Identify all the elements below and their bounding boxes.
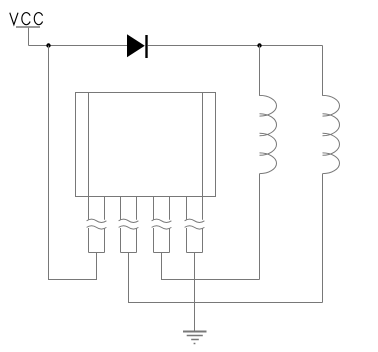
wire pin 2 to inductor L2 bottom [129,253,323,303]
pin 2 lead [121,197,137,253]
wire VCC left rail down to pin 1 [49,46,97,280]
wire pin 4 to ground [194,253,196,332]
inductor L2 [323,46,340,303]
pin 1 break symbol [87,219,107,229]
wire VCC to diode anode [29,45,128,47]
pin 1 lead [89,197,105,253]
power symbol VCC [10,13,43,46]
inductor L1 [260,46,277,280]
node B junction dot [257,43,261,47]
IC package U1 body [76,93,216,197]
pin 4 lead [187,197,203,253]
wire pin 3 to inductor L1 bottom [162,253,260,280]
pin 4 break symbol [185,219,205,229]
diode D1 [127,34,147,58]
pin 3 break symbol [152,219,172,229]
node A junction dot [46,43,50,47]
ground [183,332,207,344]
wire diode cathode to top-right rail [148,45,323,47]
pin 2 break symbol [119,219,139,229]
pin 3 lead [154,197,170,253]
